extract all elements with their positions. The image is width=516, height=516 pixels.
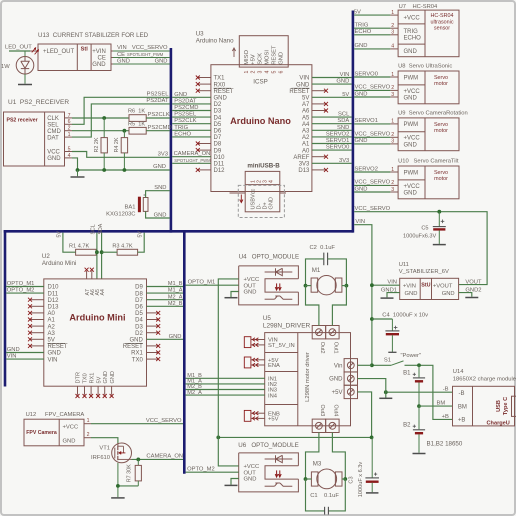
node SDA junction <box>100 250 104 254</box>
svg-text:1: 1 <box>391 167 394 173</box>
svg-text:A0: A0 <box>302 148 310 154</box>
svg-text:U2: U2 <box>42 253 50 260</box>
pins U1 stubs <box>65 117 73 119</box>
svg-text:GND: GND <box>129 338 143 344</box>
svg-text:SERVO0: SERVO0 <box>326 145 349 151</box>
svg-text:RX1: RX1 <box>89 373 95 384</box>
svg-text:FPV Camera: FPV Camera <box>26 430 57 436</box>
svg-text:1: 1 <box>391 72 394 78</box>
svg-text:U14: U14 <box>453 369 464 375</box>
wire R6 out PS2CLK <box>146 117 170 119</box>
svg-text:D11: D11 <box>48 291 59 297</box>
svg-text:RX1: RX1 <box>131 351 143 357</box>
capacitor C2 <box>323 253 325 266</box>
node source junction <box>116 484 120 488</box>
svg-text:5: 5 <box>271 71 277 74</box>
wire TRIG <box>354 27 390 29</box>
svg-text:L298N motor driver: L298N motor driver <box>305 352 311 402</box>
svg-text:GND: GND <box>355 138 368 144</box>
wire U6 +VCC to rail <box>218 437 238 466</box>
svg-text:D8: D8 <box>214 142 222 148</box>
svg-text:+VCC: +VCC <box>404 89 421 95</box>
svg-text:C2 0.1uF: C2 0.1uF <box>310 245 336 251</box>
IC U12 FPV camera box <box>24 419 84 446</box>
wire U6 GND stub <box>231 479 239 485</box>
svg-text:SCL: SCL <box>90 224 96 234</box>
svg-text:D3: D3 <box>135 324 143 330</box>
wire Power to +B <box>419 365 453 419</box>
wire mini D6 M2_B <box>147 305 184 307</box>
svg-text:VIN: VIN <box>7 354 17 360</box>
svg-text:RESET: RESET <box>271 45 277 65</box>
svg-text:D13: D13 <box>298 168 310 174</box>
wire C2 right <box>328 259 347 286</box>
wire nano VIN right <box>312 77 352 79</box>
resistor R7 <box>137 459 139 465</box>
svg-text:1: 1 <box>244 71 250 74</box>
svg-text:CE: CE <box>98 56 106 62</box>
svg-text:AREF: AREF <box>293 155 309 161</box>
svg-text:VIN: VIN <box>355 219 365 225</box>
terminal GND <box>344 372 357 385</box>
ground LED <box>18 84 32 86</box>
capacitor C4 <box>391 319 393 331</box>
svg-text:C3: C3 <box>349 476 355 483</box>
svg-text:GND: GND <box>117 58 130 64</box>
svg-text:PWM: PWM <box>404 170 419 176</box>
svg-text:BM: BM <box>458 405 467 411</box>
svg-text:2: 2 <box>391 23 394 29</box>
wire SCL vertical <box>96 233 98 279</box>
svg-text:U6 OPTO_MODULE: U6 OPTO_MODULE <box>238 442 298 449</box>
svg-text:Servo: Servo <box>434 75 448 81</box>
svg-text:S1: S1 <box>384 357 391 363</box>
svg-text:D4: D4 <box>135 318 143 324</box>
svg-text:+5V: +5V <box>251 54 257 65</box>
svg-text:A4: A4 <box>100 289 106 295</box>
svg-text:sensor: sensor <box>434 26 450 32</box>
svg-text:IRF610: IRF610 <box>91 455 110 461</box>
wire GND rail <box>72 158 170 170</box>
svg-text:PS2DAT: PS2DAT <box>174 98 197 104</box>
wire nano 3V3 <box>312 162 352 164</box>
svg-text:+VOUT: +VOUT <box>433 283 453 289</box>
ground C3 <box>366 492 379 494</box>
svg-text:CLK: CLK <box>47 116 59 122</box>
svg-text:SERVO1: SERVO1 <box>355 118 378 124</box>
svg-text:3: 3 <box>391 187 394 193</box>
arrow up nano <box>233 49 235 58</box>
svg-text:D12: D12 <box>214 168 226 174</box>
wire nano D11 SPOTLIGHT_PWM <box>172 162 211 164</box>
pin U13 +LED_OUT stub <box>30 50 38 52</box>
svg-text:+VCC: +VCC <box>63 425 79 431</box>
svg-text:6: 6 <box>68 119 71 125</box>
wire CMD to R5 (PS2CMD net) <box>72 130 129 132</box>
svg-text:1W: 1W <box>1 64 10 70</box>
wire OPTO_M1 mini <box>6 286 44 288</box>
wire R5 out PS2CMD <box>146 130 170 132</box>
svg-text:+5V: +5V <box>332 390 343 396</box>
svg-text:VCC_SERVO: VCC_SERVO <box>355 132 391 138</box>
svg-text:M1_A: M1_A <box>168 288 183 294</box>
resistor R3 <box>117 249 138 255</box>
svg-text:FPV_CAMERA: FPV_CAMERA <box>45 412 84 418</box>
svg-text:R1 4.7K: R1 4.7K <box>69 244 89 250</box>
svg-text:ECHO: ECHO <box>355 29 372 35</box>
wire mini D7 M2_A <box>147 299 184 301</box>
svg-text:4: 4 <box>268 180 274 183</box>
node M1 left junction <box>304 284 308 288</box>
svg-text:5V: 5V <box>354 9 361 15</box>
battery B2 <box>418 406 420 429</box>
wire nano D6 TRIG <box>172 129 211 131</box>
svg-text:1: 1 <box>391 119 394 125</box>
svg-text:+LED_OUT: +LED_OUT <box>43 49 75 55</box>
svg-text:OUT: OUT <box>244 283 257 289</box>
bus vertical x170 (U13/PS2 to Arduino Nano) <box>170 48 173 233</box>
bus vertical x184 (Arduino Mini right) <box>183 230 186 474</box>
svg-text:motor: motor <box>434 128 448 134</box>
node R4 top junction <box>123 129 127 133</box>
arrows U4 opto module <box>276 283 278 289</box>
svg-text:A2: A2 <box>48 324 56 330</box>
wire mini GND <box>6 352 44 354</box>
capacitor C3 <box>371 437 373 478</box>
diode U6 opto module LED <box>265 458 293 460</box>
svg-text:GND: GND <box>336 79 349 85</box>
svg-text:StU: StU <box>421 283 430 289</box>
motor M1 <box>311 278 318 292</box>
ground L298N GND <box>379 397 392 399</box>
svg-text:ENA: ENA <box>268 363 280 369</box>
svg-text:1: 1 <box>68 132 71 138</box>
svg-text:D11: D11 <box>214 162 225 168</box>
svg-text:SERVO1: SERVO1 <box>326 138 349 144</box>
wire camera GND to VT1 drain <box>91 438 118 443</box>
svg-text:GND: GND <box>268 197 274 209</box>
svg-text:2: 2 <box>391 85 394 91</box>
connector USB-C <box>512 396 516 416</box>
pins A7 A6 unconnected <box>86 271 88 279</box>
svg-text:B1: B1 <box>403 370 411 376</box>
pin nano RESET unconnected <box>312 90 326 92</box>
svg-text:D5: D5 <box>135 311 143 317</box>
svg-text:USB: USB <box>496 400 502 412</box>
wire VIN rail <box>354 225 372 366</box>
jumper JP1 VIN/ST <box>244 337 251 348</box>
node C4 junction <box>370 317 374 321</box>
svg-text:GND: GND <box>404 49 418 55</box>
buzzer BA1 symbol <box>138 197 141 213</box>
wire U11 VIN <box>372 284 400 286</box>
svg-text:SDA: SDA <box>337 118 349 124</box>
svg-text:B2: B2 <box>403 422 411 428</box>
diode U4 opto module LED <box>265 271 293 273</box>
wire VCC_SERVO camera <box>91 423 183 425</box>
svg-text:PS2CLK: PS2CLK <box>174 118 196 124</box>
wire nano D3 PS2CMD <box>172 110 211 112</box>
svg-text:MOSI: MOSI <box>265 50 271 65</box>
svg-text:U4 OPTO_MODULE: U4 OPTO_MODULE <box>239 254 299 261</box>
svg-text:PWM: PWM <box>404 122 419 128</box>
node S1 junction <box>370 363 374 367</box>
svg-text:A4: A4 <box>302 122 310 128</box>
svg-text:4: 4 <box>68 153 71 159</box>
svg-text:Arduino Mini: Arduino Mini <box>69 313 125 323</box>
wire VCC_SERVO rail <box>354 212 487 285</box>
svg-text:GND: GND <box>155 58 168 64</box>
ground VT1 <box>111 497 125 499</box>
svg-text:SERVO0: SERVO0 <box>355 71 378 77</box>
svg-text:Out4: Out4 <box>333 405 339 417</box>
capacitor C1 <box>324 507 326 515</box>
IC U7 HC-SR04 box <box>398 10 459 57</box>
svg-text:GND: GND <box>329 377 343 383</box>
svg-text:L298N_DRIVER: L298N_DRIVER <box>263 323 311 330</box>
svg-text:BM: BM <box>437 401 446 407</box>
arrow down USB <box>240 195 242 203</box>
wire +5V terminal down <box>358 392 372 438</box>
IC U4 opto module box <box>265 279 298 292</box>
wire nano GND <box>172 96 211 98</box>
transistor U6 opto module <box>265 485 275 487</box>
svg-text:C5: C5 <box>421 226 428 232</box>
wire BA1 GND to bus <box>146 211 170 218</box>
wire nano A1 SERVO1 <box>312 143 352 145</box>
svg-text:C1 0.1uF: C1 0.1uF <box>310 493 339 499</box>
svg-text:1000uF x 6.3v: 1000uF x 6.3v <box>358 462 364 498</box>
svg-text:OUT: OUT <box>244 470 257 476</box>
wire CAMERA_ON <box>132 458 184 460</box>
svg-text:HC-SR04: HC-SR04 <box>430 13 453 19</box>
IC U10 Servo CameraTilt box <box>398 166 459 199</box>
svg-text:6: 6 <box>278 71 284 74</box>
svg-text:ECHO: ECHO <box>174 131 191 137</box>
wire nano D2 PS2DAT <box>172 103 211 105</box>
wire nano D7 ECHO <box>172 136 211 138</box>
terminal Out2 <box>312 326 325 339</box>
svg-text:A6: A6 <box>302 109 310 115</box>
svg-text:D4: D4 <box>214 115 222 121</box>
svg-text:R6 1K: R6 1K <box>128 109 145 115</box>
svg-text:VIN: VIN <box>387 280 397 286</box>
svg-text:3V3: 3V3 <box>299 162 310 168</box>
motor M3 <box>311 472 318 486</box>
node SCL junction <box>95 250 99 254</box>
svg-text:2: 2 <box>87 432 90 438</box>
node R2 top junction <box>102 116 106 120</box>
dashed box miniUSB <box>238 185 284 217</box>
svg-text:CMD: CMD <box>47 129 61 135</box>
svg-text:SCK: SCK <box>258 53 264 65</box>
wire mini D8 M1_A <box>147 292 184 294</box>
wire U4 GND stub <box>231 292 239 298</box>
svg-text:M1_B: M1_B <box>168 281 183 287</box>
wire VCC_SERVO U9 Servo CameraRotation <box>354 136 390 138</box>
IC U6 opto module box <box>265 466 298 479</box>
wire SERVO1 <box>354 123 390 125</box>
svg-text:OPTO_M1: OPTO_M1 <box>7 281 35 287</box>
svg-text:2: 2 <box>391 180 394 186</box>
wire GND to U7 <box>354 48 390 50</box>
svg-text:M3: M3 <box>313 461 322 468</box>
terminal +5V <box>344 385 357 398</box>
resistor R1 <box>76 249 97 255</box>
svg-text:TX0: TX0 <box>132 357 144 363</box>
wire M1_A to IN2 <box>186 383 265 385</box>
wire mini VIN <box>6 358 44 360</box>
pins mini right unconnected D5-D2 <box>147 312 159 314</box>
svg-text:4: 4 <box>391 44 394 50</box>
svg-text:1: 1 <box>87 418 90 424</box>
svg-text:miniUSB-B: miniUSB-B <box>247 162 280 169</box>
svg-text:Out3: Out3 <box>319 405 325 417</box>
switch S1 <box>372 364 391 366</box>
svg-text:3: 3 <box>258 71 264 74</box>
svg-text:TRIG: TRIG <box>404 29 419 35</box>
jumper JP3 ENB <box>244 410 251 421</box>
node GND junctions <box>76 168 80 172</box>
IC U14 box <box>453 386 515 426</box>
wire R1 left 5V <box>63 233 76 253</box>
svg-text:GND: GND <box>278 52 284 65</box>
wire nano A0 SERVO0 <box>312 149 352 151</box>
svg-text:3V3: 3V3 <box>158 152 168 158</box>
wire SND to bus <box>146 191 170 198</box>
pins U7 <box>390 14 398 16</box>
svg-text:D6: D6 <box>214 129 222 135</box>
node C3 junction <box>370 436 374 440</box>
svg-text:RESET: RESET <box>214 89 234 95</box>
wire CLK to R6 (PS2CLK net) <box>72 117 129 119</box>
svg-text:GND: GND <box>214 96 228 102</box>
svg-text:U3: U3 <box>196 30 204 37</box>
wire GND U8 Servo UltraSonic <box>354 96 390 98</box>
wire SERVO2 <box>354 171 390 173</box>
node U11 VIN junction <box>370 283 374 287</box>
svg-text:U8 Servo UltraSonic: U8 Servo UltraSonic <box>398 64 452 70</box>
svg-text:U10 Servo CameraTilt: U10 Servo CameraTilt <box>398 159 459 165</box>
wire nano D4 PS2SEL <box>172 116 211 118</box>
svg-text:D9: D9 <box>214 148 222 154</box>
svg-text:M2_A: M2_A <box>168 294 183 300</box>
svg-text:4: 4 <box>265 71 271 74</box>
wire BM <box>419 405 453 407</box>
wire nano A5 SCL <box>312 116 352 118</box>
pin miniUSB right stub <box>280 192 286 194</box>
svg-text:U1 PS2_RECEIVER: U1 PS2_RECEIVER <box>8 99 69 106</box>
svg-text:VCC_SERVO: VCC_SERVO <box>355 85 391 91</box>
svg-text:SPOTLIGHT_PWM: SPOTLIGHT_PWM <box>174 158 211 163</box>
svg-text:Arduino Nano: Arduino Nano <box>196 37 234 44</box>
svg-text:PS2CLK: PS2CLK <box>148 112 170 118</box>
node M1 right junction <box>345 284 349 288</box>
svg-text:5V: 5V <box>342 92 349 98</box>
wire SEL to PS2SEL <box>72 97 170 124</box>
wire nano A3 SND <box>312 129 352 131</box>
wire OPTO_M1 to U4 OUT <box>186 284 239 286</box>
svg-text:VIN: VIN <box>48 357 58 363</box>
svg-text:A3: A3 <box>48 331 56 337</box>
svg-text:GND: GND <box>355 186 368 192</box>
svg-text:GND: GND <box>110 371 116 383</box>
svg-text:GND: GND <box>296 82 310 88</box>
svg-text:Out2: Out2 <box>319 342 325 354</box>
svg-text:A0: A0 <box>48 311 56 317</box>
resistor R6 <box>129 115 146 122</box>
LED arrows <box>32 48 36 53</box>
svg-text:GND: GND <box>7 347 20 353</box>
wire nano GND right <box>312 83 352 85</box>
svg-text:GND: GND <box>154 212 167 218</box>
svg-text:ECHO: ECHO <box>404 36 422 42</box>
LED D1 <box>24 51 26 57</box>
svg-text:5V: 5V <box>96 376 102 383</box>
svg-text:SCL: SCL <box>338 112 350 118</box>
wire GND1 stub <box>387 293 400 298</box>
svg-text:GND: GND <box>92 62 106 68</box>
svg-text:GND: GND <box>169 334 182 340</box>
svg-text:VCC_SERVO: VCC_SERVO <box>355 206 391 212</box>
svg-text:SERVO2: SERVO2 <box>326 131 349 137</box>
svg-text:DAT: DAT <box>47 135 59 141</box>
svg-text:+VCC: +VCC <box>404 136 421 142</box>
svg-text:OPTO_M2: OPTO_M2 <box>187 467 215 473</box>
svg-text:SND: SND <box>154 185 166 191</box>
svg-text:GND: GND <box>355 91 368 97</box>
wire GND U9 Servo CameraRotation <box>354 143 390 145</box>
wire VCC_SERVO U10 Servo CameraTilt <box>354 184 390 186</box>
svg-text:TX1: TX1 <box>214 76 226 82</box>
svg-text:VCC_SERVO: VCC_SERVO <box>132 45 168 51</box>
wire GND U10 Servo CameraTilt <box>354 191 390 193</box>
svg-text:PS2SEL: PS2SEL <box>147 92 170 98</box>
transistor VT1 IRF610 <box>112 443 132 463</box>
resistor R5 <box>129 127 146 134</box>
pin nano left unconnected D12 <box>198 169 211 171</box>
svg-text:+VIN: +VIN <box>403 283 416 289</box>
connector miniUSB box <box>245 171 280 211</box>
svg-text:D13: D13 <box>48 305 60 311</box>
svg-text:2: 2 <box>68 126 71 132</box>
wire GND terminal <box>358 379 386 398</box>
svg-text:+B: +B <box>442 414 449 420</box>
svg-text:Out1: Out1 <box>333 342 339 354</box>
IC U5 L298N box <box>265 333 351 426</box>
svg-text:RESET: RESET <box>123 344 143 350</box>
wire M2_B to IN3 <box>186 389 265 391</box>
wire SDA vertical <box>101 233 103 279</box>
svg-text:R2 2K: R2 2K <box>94 137 100 152</box>
wire VCC_SERVO U8 Servo UltraSonic <box>354 89 390 91</box>
connector ICSP box <box>239 36 288 67</box>
svg-text:ChargeU: ChargeU <box>487 420 510 426</box>
svg-text:D10: D10 <box>214 155 226 161</box>
svg-text:M2_B: M2_B <box>168 301 183 307</box>
svg-text:D12: D12 <box>48 298 60 304</box>
svg-text:+VCC: +VCC <box>244 464 260 470</box>
wire ground stub <box>77 170 79 176</box>
wire M1 right to terminal <box>342 285 347 287</box>
svg-text:3: 3 <box>391 30 394 36</box>
svg-text:RESET: RESET <box>289 89 309 95</box>
svg-text:GND: GND <box>405 291 418 297</box>
svg-text:Servo: Servo <box>434 170 448 176</box>
svg-text:A1: A1 <box>302 142 310 148</box>
svg-text:D2: D2 <box>135 331 143 337</box>
wire LED cathode to ground <box>24 74 26 84</box>
